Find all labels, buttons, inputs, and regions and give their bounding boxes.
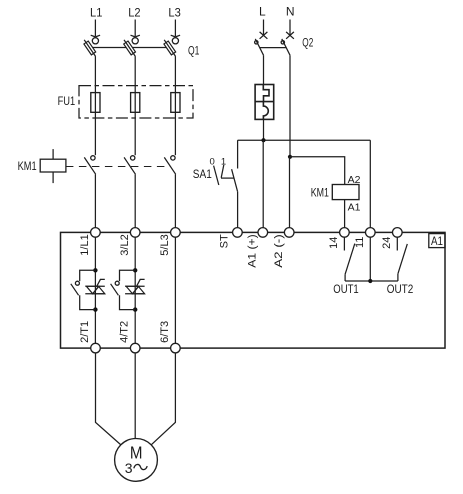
breaker Q2 pole L (255, 20, 268, 56)
svg-text:KM1: KM1 (311, 185, 329, 199)
relay contact OUT2 (397, 237, 407, 281)
junction phase 1 top (93, 268, 97, 272)
contactor coil KM1 (332, 185, 359, 200)
wire phase 1 Q1 to FU1/KM1 (94, 56, 96, 155)
fuse FU1 element 1 (91, 93, 100, 113)
wire N junction to KM1 coil A2 (290, 157, 345, 185)
terminal 1/L1 (79, 228, 100, 256)
contact KM1 pole 2 (NO) (124, 156, 135, 175)
junction phase 2 bottom (133, 307, 137, 311)
bypass contact phase 1 (71, 270, 96, 309)
terminal A1 (+) (247, 228, 268, 268)
fuse FU1 enclosure (dash-dot box) (79, 86, 193, 118)
svg-text:24: 24 (381, 237, 393, 249)
junction L rail (261, 138, 265, 142)
terminal A2 (-) (273, 228, 294, 268)
motor M 3~ (115, 439, 158, 482)
svg-text:5/L3: 5/L3 (159, 234, 171, 255)
Q2 mechanical link (260, 47, 286, 49)
svg-text:A1 (+): A1 (+) (247, 234, 259, 267)
wire phase 2 inside starter (134, 237, 136, 343)
terminal 11 (354, 228, 375, 248)
wire terminal 11 to relay common (369, 237, 371, 281)
contact KM1 pole 3 (NO) (164, 156, 175, 175)
svg-text:OUT1: OUT1 (333, 284, 358, 296)
terminal 4/T2 (119, 321, 140, 353)
KM1 mechanical link (dashed) (66, 166, 171, 168)
svg-text:1/L1: 1/L1 (79, 234, 91, 255)
wire control rail (L) (238, 139, 371, 141)
svg-text:11: 11 (354, 237, 366, 248)
control MCB/fuse block (thermal + magnetic release) (255, 85, 274, 120)
terminal 24 (381, 228, 402, 249)
Q1 mechanical link (90, 47, 170, 49)
svg-text:2/T1: 2/T1 (79, 321, 91, 343)
relay contact OUT1 (344, 237, 354, 281)
junction N (288, 155, 292, 159)
wire N Q2 down to junction (289, 55, 291, 157)
svg-text:3: 3 (125, 460, 133, 476)
svg-text:L3: L3 (168, 6, 181, 20)
wire phase 3 inside starter (174, 237, 176, 343)
terminal ST (219, 228, 243, 249)
terminal 6/T3 (159, 321, 180, 353)
svg-text:A2: A2 (348, 174, 361, 186)
breaker Q2 pole N (281, 20, 294, 56)
svg-text:OUT2: OUT2 (387, 284, 414, 296)
svg-text:A1: A1 (348, 202, 361, 214)
svg-text:14: 14 (328, 237, 340, 249)
wire phase 3 Q1 to FU1/KM1 (174, 56, 176, 155)
wire KM1 coil A1 to terminal 14 (344, 200, 346, 228)
svg-text:FU1: FU1 (58, 94, 76, 108)
bypass contact phase 2 (111, 270, 136, 309)
junction relay common (368, 279, 372, 283)
soft starter A1 enclosure (61, 232, 446, 348)
wire rail to terminal 11 (369, 140, 371, 228)
svg-text:N: N (286, 5, 295, 19)
thyristor pair (triac) phase 1 (85, 279, 105, 293)
wire phase 2 KM1 contact to terminal 3/L2 (134, 174, 136, 227)
terminal 14 (328, 228, 349, 249)
wire L fuse block to junction (263, 119, 265, 140)
svg-text:SA1: SA1 (193, 167, 212, 181)
breaker Q1 pole 3 (fused disconnect) (164, 20, 180, 57)
svg-text:Q1: Q1 (188, 44, 200, 58)
wire T1 to motor (96, 353, 121, 445)
wire phase 3 KM1 contact to terminal 5/L3 (174, 174, 176, 227)
wire T3 to motor (151, 353, 175, 445)
fuse FU1 element 3 (171, 93, 180, 113)
svg-text:A1: A1 (431, 234, 443, 248)
thyristor pair (triac) phase 2 (125, 279, 145, 293)
breaker Q1 pole 1 (fused disconnect) (84, 20, 100, 57)
terminal 2/T1 (79, 321, 100, 353)
svg-text:L1: L1 (90, 6, 103, 20)
junction phase 2 top (133, 268, 137, 272)
svg-text:4/T2: 4/T2 (119, 321, 131, 343)
wire rail to SA1 (237, 140, 239, 168)
wire relay common (345, 280, 398, 282)
svg-text:Q2: Q2 (302, 36, 313, 50)
svg-text:A2 (-): A2 (-) (273, 234, 285, 267)
wire phase 1 KM1 contact to terminal 1/L1 (94, 174, 96, 227)
svg-text:3/L2: 3/L2 (119, 234, 131, 255)
wire L Q2 to fuse block (263, 55, 265, 84)
fuse FU1 element 2 (131, 93, 140, 113)
wire SA1 to terminal ST (237, 192, 239, 228)
svg-text:L2: L2 (128, 6, 141, 20)
wire phase 2 Q1 to FU1/KM1 (134, 56, 136, 155)
breaker Q1 pole 2 (fused disconnect) (124, 20, 140, 57)
selector switch SA1 (214, 165, 238, 192)
svg-text:L: L (259, 5, 266, 19)
terminal 5/L3 (159, 228, 180, 256)
junction phase 1 bottom (93, 307, 97, 311)
svg-text:KM1: KM1 (18, 159, 37, 173)
wire L junction to terminal A1 (+) (262, 140, 264, 228)
contact KM1 pole 1 (NO) (84, 156, 95, 175)
svg-text:ST: ST (219, 234, 231, 248)
contactor KM1 operating element (40, 149, 66, 183)
svg-text:1: 1 (221, 157, 226, 168)
wire N junction to terminal A2 (-) (289, 157, 291, 228)
wire phase 1 inside starter (94, 237, 96, 343)
label A1 (device) (429, 234, 445, 248)
svg-text:6/T3: 6/T3 (159, 321, 171, 343)
wire T2 to motor (134, 353, 136, 439)
terminal 3/L2 (119, 228, 140, 256)
